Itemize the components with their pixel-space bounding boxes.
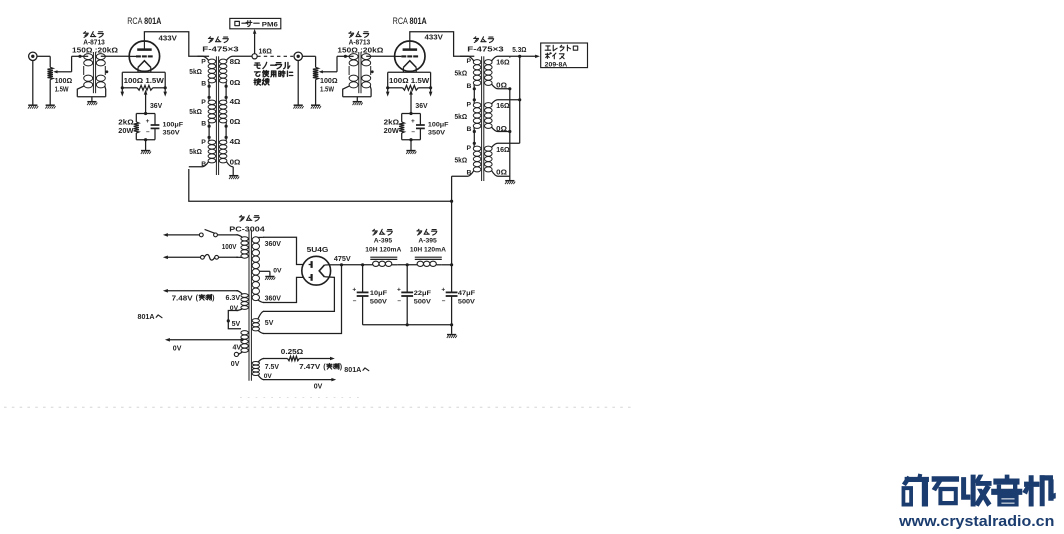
label 0Ω (T4 tap 2) bbox=[496, 83, 507, 90]
svg-text:209-8A: 209-8A bbox=[545, 61, 568, 68]
label 475V bbox=[334, 256, 351, 263]
svg-text:(: ( bbox=[323, 363, 326, 371]
svg-text:PM6: PM6 bbox=[262, 22, 278, 29]
svg-text:0V: 0V bbox=[264, 373, 273, 380]
svg-text:+: + bbox=[397, 286, 401, 293]
label で使用時に bbox=[255, 70, 293, 76]
wire V2 plate to right OPT P bbox=[410, 32, 475, 57]
label 100Ω 1.5W (V1 hum pot) bbox=[124, 76, 164, 85]
ground (VR1) bbox=[45, 105, 55, 108]
dashed mono link wire bbox=[257, 55, 293, 57]
label 0Ω (T2 tap 4) bbox=[230, 119, 241, 126]
svg-text:801A: 801A bbox=[138, 312, 155, 321]
svg-text:0V: 0V bbox=[231, 361, 240, 368]
label 0Ω (T4 tap 6) bbox=[496, 169, 507, 176]
output transformer T2 タムラ F-475×3 (left, series secondaries) bbox=[189, 56, 252, 175]
wire J1 to level pot bbox=[37, 56, 50, 67]
label 10H 120mA (L1) bbox=[365, 247, 401, 254]
svg-text:P: P bbox=[201, 99, 206, 106]
label 350V (C1) bbox=[163, 129, 181, 136]
svg-text:A-395: A-395 bbox=[374, 238, 393, 245]
svg-text:7.5V: 7.5V bbox=[265, 364, 280, 371]
label タムラ (L2) bbox=[417, 229, 437, 235]
label 350V (C2) bbox=[428, 129, 446, 136]
label 4Ω (T2 tap 3) bbox=[230, 99, 241, 106]
wire J1 ground drop bbox=[32, 61, 34, 105]
svg-text:500V: 500V bbox=[458, 298, 475, 305]
svg-text:): ) bbox=[340, 363, 343, 371]
label モノーラル bbox=[254, 62, 289, 68]
watermark url www.crystalradio.cn bbox=[898, 513, 1054, 530]
label 0Ω (T4 tap 4) bbox=[496, 126, 507, 133]
label 36V (V2) bbox=[415, 103, 428, 110]
label PC-3004 (T5) bbox=[229, 227, 265, 234]
label 0V (HV center tap) bbox=[273, 267, 282, 274]
svg-text:0Ω: 0Ω bbox=[496, 83, 507, 90]
label 100μF (C2) bbox=[428, 121, 449, 128]
label 10μF (C3) bbox=[370, 290, 387, 297]
T5 7.5V winding bbox=[252, 359, 264, 380]
label 1.5W (VR2) bbox=[320, 87, 334, 94]
svg-text:B: B bbox=[201, 161, 206, 168]
svg-text:www.crystalradio.cn: www.crystalradio.cn bbox=[898, 513, 1054, 530]
svg-text:0Ω: 0Ω bbox=[496, 126, 507, 133]
svg-text:433V: 433V bbox=[425, 34, 444, 41]
svg-text:20W: 20W bbox=[384, 128, 400, 135]
svg-text:433V: 433V bbox=[159, 36, 178, 43]
svg-text:): ) bbox=[212, 294, 215, 302]
svg-text:0V: 0V bbox=[314, 383, 323, 390]
label 2kΩ (R1) bbox=[118, 119, 134, 126]
svg-text:B: B bbox=[467, 83, 472, 90]
svg-text:22μF: 22μF bbox=[414, 290, 431, 297]
label 500V (C5) bbox=[458, 298, 475, 305]
wire T4 0Ω parallel bus bbox=[508, 87, 511, 180]
wire T4 16Ω parallel bus bbox=[510, 55, 522, 144]
svg-text:5kΩ: 5kΩ bbox=[189, 109, 202, 116]
svg-text:(: ( bbox=[196, 294, 199, 302]
wire 360V bottom to V3 anode 2 bbox=[263, 277, 303, 302]
label 16Ω (T4 tap 1) bbox=[496, 60, 510, 67]
svg-text:0Ω: 0Ω bbox=[230, 160, 241, 167]
svg-text:5kΩ: 5kΩ bbox=[189, 149, 202, 156]
svg-text:P: P bbox=[467, 58, 472, 65]
wire choke L2 to B+ node bbox=[442, 263, 453, 266]
label F-475×3 (T4) bbox=[467, 46, 504, 53]
label 10H 120mA (L2) bbox=[410, 247, 446, 254]
svg-text:–: – bbox=[397, 298, 401, 305]
svg-text:B: B bbox=[201, 80, 206, 87]
svg-text:16Ω: 16Ω bbox=[259, 48, 273, 55]
svg-text:0Ω: 0Ω bbox=[230, 119, 241, 126]
choke L1 タムラ A-395 10H bbox=[370, 257, 397, 266]
wire V1 plate to left OPT P bbox=[144, 32, 209, 57]
svg-text:0V: 0V bbox=[173, 346, 182, 353]
T5 4V winding bbox=[237, 331, 249, 355]
label 7.5V bbox=[265, 364, 280, 371]
T5 primary 100V winding bbox=[237, 235, 249, 258]
hum pot 100Ω 1.5W (V1 filament) bbox=[121, 72, 168, 96]
svg-text:36V: 36V bbox=[150, 103, 163, 110]
input transformer T3 primary winding bbox=[343, 54, 358, 97]
label 36V (V1) bbox=[150, 103, 163, 110]
label RCA 801A (V1) bbox=[127, 16, 161, 27]
label P (T2 s1) bbox=[201, 58, 206, 65]
wire J2 ground drop bbox=[297, 61, 299, 105]
terminal open circle 0V (4V winding) bbox=[234, 352, 238, 356]
input transformer T1 bottom rail bbox=[77, 97, 105, 101]
svg-text:B: B bbox=[467, 126, 472, 133]
node 16Ω output terminal bbox=[252, 54, 257, 59]
input jack J1 bbox=[29, 52, 37, 60]
svg-text:500V: 500V bbox=[370, 298, 387, 305]
label タムラ (T3) bbox=[349, 32, 369, 38]
label 5V (rectifier winding) bbox=[265, 320, 274, 327]
label 4Ω (T2 tap 5) bbox=[230, 139, 241, 146]
input transformer T1 secondary winding bbox=[96, 54, 129, 97]
capacitor C4 22μF 500V bbox=[397, 265, 413, 325]
svg-text:801A: 801A bbox=[344, 365, 361, 374]
label 150Ω :20kΩ (T3) bbox=[337, 48, 383, 55]
label F-475×3 (T2) bbox=[202, 46, 239, 53]
input transformer T1 primary winding bbox=[77, 54, 92, 97]
svg-text:F-475×3: F-475×3 bbox=[202, 46, 239, 53]
label P (T4 s3) bbox=[467, 145, 472, 152]
label 360V (HV bottom) bbox=[265, 295, 282, 302]
ground (filter rail) bbox=[447, 335, 457, 338]
label 100Ω 1.5W (V2 hum pot) bbox=[389, 76, 429, 85]
wire T4 output 5.3Ω to speaker bbox=[510, 55, 540, 59]
wire 6.3V to 801A filaments + arrow bbox=[163, 289, 238, 293]
power transformer T5 タムラ PC-3004 core bbox=[249, 230, 251, 381]
wire V3 filament to 5V winding bbox=[263, 277, 334, 312]
svg-text:+: + bbox=[441, 286, 445, 293]
svg-text:100μF: 100μF bbox=[163, 121, 184, 128]
wire filter ground rail bbox=[363, 323, 454, 334]
svg-text:7.48V: 7.48V bbox=[172, 295, 193, 302]
svg-text:1.5W: 1.5W bbox=[320, 87, 334, 94]
svg-text:6.3V: 6.3V bbox=[226, 295, 241, 302]
svg-text:PC-3004: PC-3004 bbox=[229, 227, 265, 234]
label A-395 (L1) bbox=[374, 238, 393, 245]
svg-text:10H 120mA: 10H 120mA bbox=[365, 247, 401, 254]
label 20W (R1) bbox=[118, 128, 134, 135]
potentiometer VR1 100Ω 1.5W bbox=[48, 67, 53, 79]
input transformer T3 secondary winding bbox=[362, 54, 395, 97]
T5 HV secondary 360-0-360 winding bbox=[252, 237, 270, 303]
label タムラ (T2) bbox=[208, 37, 228, 43]
label B (T4 s1) bbox=[467, 83, 472, 90]
choke L2 タムラ A-395 10H bbox=[415, 257, 442, 266]
input transformer T3 bottom rail bbox=[343, 97, 371, 101]
svg-text:B: B bbox=[467, 169, 472, 176]
node (input transformer primary top) bbox=[78, 55, 81, 58]
T5 5V rectifier winding bbox=[252, 311, 264, 333]
label タムラ (T5) bbox=[239, 215, 259, 221]
label タムラ (T1) bbox=[83, 32, 103, 38]
label 22μF (C4) bbox=[414, 290, 431, 297]
svg-text:1.5W: 1.5W bbox=[55, 87, 69, 94]
label 0V (7.5V winding) bbox=[264, 373, 273, 380]
svg-text:5kΩ: 5kΩ bbox=[455, 70, 468, 77]
label B (T2 s2) bbox=[201, 120, 206, 127]
bias resistor R3 2kΩ + cap C2 100μF (V2) bbox=[399, 90, 425, 150]
label タムラ (L1) bbox=[372, 229, 392, 235]
label 500V (C4) bbox=[414, 298, 431, 305]
svg-text:0Ω: 0Ω bbox=[496, 169, 507, 176]
wire mains neutral + arrow bbox=[163, 255, 201, 259]
svg-text:–: – bbox=[411, 129, 415, 136]
wire 7.5V return 0V + arrow bbox=[263, 378, 336, 382]
svg-text:5U4G: 5U4G bbox=[307, 245, 329, 254]
label RCA 801A (V2) bbox=[393, 16, 427, 27]
ground (HV center tap) bbox=[265, 277, 275, 280]
svg-text:4V: 4V bbox=[233, 345, 242, 352]
wire choke L1 to choke L2 bbox=[397, 263, 417, 266]
label A-395 (L2) bbox=[418, 238, 437, 245]
ground (J1) bbox=[28, 105, 38, 108]
label 0Ω (T2 tap 2) bbox=[230, 80, 241, 87]
label 500V (C3) bbox=[370, 298, 387, 305]
svg-text:0V: 0V bbox=[230, 305, 239, 312]
svg-text:360V: 360V bbox=[265, 295, 282, 302]
label 7.47V (実測) bbox=[299, 363, 343, 371]
svg-text:F-475×3: F-475×3 bbox=[467, 46, 504, 53]
label P (T2 s3) bbox=[201, 139, 206, 146]
mains switch S1 bbox=[199, 229, 238, 236]
speaker box エレクトロ ボイス 209-8A bbox=[541, 43, 588, 68]
label 0.25Ω bbox=[281, 349, 304, 356]
svg-text:7.47V: 7.47V bbox=[299, 364, 320, 371]
label 433V (V1 plate) bbox=[159, 36, 178, 43]
wire VR1 wiper to input transformer bbox=[53, 56, 80, 73]
label 7.48V (実測) bbox=[172, 294, 216, 303]
svg-text:350V: 350V bbox=[163, 129, 181, 136]
svg-text:5kΩ: 5kΩ bbox=[455, 114, 468, 121]
svg-text:100Ω 1.5W: 100Ω 1.5W bbox=[389, 76, 429, 85]
label 100Ω (VR1) bbox=[55, 78, 73, 85]
label 0V (return) bbox=[314, 383, 323, 390]
watermark logo 矿石收音机 bbox=[902, 474, 1055, 506]
ground (T2 secondary) bbox=[229, 176, 239, 179]
wire HV center tap to ground bbox=[269, 271, 271, 276]
svg-text:150Ω :20kΩ: 150Ω :20kΩ bbox=[72, 48, 118, 55]
label 16Ω bbox=[259, 48, 273, 55]
ground (T1) bbox=[87, 102, 97, 105]
speaker box ローサー PM6 bbox=[230, 18, 281, 28]
svg-text:P: P bbox=[467, 102, 472, 109]
svg-text:16Ω: 16Ω bbox=[496, 60, 510, 67]
wire 5V winding to 475V node bbox=[263, 265, 341, 334]
label P (T2 s2) bbox=[201, 99, 206, 106]
wire V3 cathode to 475V node bbox=[324, 264, 341, 266]
wire VR1 to ground bbox=[49, 80, 51, 105]
svg-text:A-395: A-395 bbox=[418, 238, 437, 245]
svg-text:5V: 5V bbox=[232, 321, 241, 328]
svg-text:475V: 475V bbox=[334, 256, 351, 263]
svg-text:350V: 350V bbox=[428, 129, 446, 136]
label 100Ω (VR2) bbox=[320, 78, 338, 85]
svg-text:–: – bbox=[353, 298, 357, 305]
svg-text:47μF: 47μF bbox=[458, 290, 475, 297]
ground (V1 bias) bbox=[141, 151, 151, 154]
input transformer T1 A-8713 core bbox=[93, 52, 95, 93]
label 47μF (C5) bbox=[458, 290, 475, 297]
label 0V (4V bottom) bbox=[231, 361, 240, 368]
svg-text:RCA 801A: RCA 801A bbox=[127, 16, 161, 27]
wire 4V tap 0V + arrow bbox=[165, 338, 244, 342]
svg-text:8Ω: 8Ω bbox=[230, 59, 241, 66]
svg-text:+: + bbox=[146, 118, 150, 125]
wire 16Ω node to speaker arrow bbox=[253, 29, 257, 54]
wire 6.3V 0V step link to 4V winding bbox=[227, 311, 241, 329]
output transformer T4 タムラ F-475×3 (right, parallel secondaries) bbox=[452, 56, 520, 181]
svg-text:360V: 360V bbox=[265, 241, 282, 248]
label 16Ω (T4 tap 3) bbox=[496, 103, 510, 110]
label 100V bbox=[222, 244, 237, 251]
wire VR2 to ground bbox=[315, 80, 317, 105]
label 433V (V2 plate) bbox=[425, 34, 444, 41]
label 5kΩ (T2 s2) bbox=[189, 109, 202, 116]
label 接続 bbox=[254, 79, 269, 86]
ground (VR2) bbox=[311, 105, 321, 108]
label 20W (R3) bbox=[384, 128, 400, 135]
svg-text:RCA 801A: RCA 801A bbox=[393, 16, 427, 27]
label 5U4G (V3) bbox=[307, 245, 329, 254]
wire T4 B to B+ bus bbox=[450, 176, 453, 265]
svg-text:–: – bbox=[146, 129, 150, 136]
label 0V (6.3V winding) bbox=[230, 305, 239, 312]
label 4V bbox=[233, 345, 242, 352]
label 6.3V bbox=[226, 295, 241, 302]
svg-text:4Ω: 4Ω bbox=[230, 139, 241, 146]
label 16Ω (T4 tap 5) bbox=[496, 147, 510, 154]
input transformer T3 A-8713 core bbox=[359, 52, 361, 93]
svg-text:5.3Ω: 5.3Ω bbox=[512, 47, 527, 54]
label 0V (4V tap) bbox=[173, 346, 182, 353]
svg-text:36V: 36V bbox=[415, 103, 428, 110]
label 8Ω (T2 tap 1) bbox=[230, 59, 241, 66]
svg-text:2kΩ: 2kΩ bbox=[384, 119, 400, 126]
capacitor C5 47μF 500V bbox=[441, 265, 457, 325]
ground (T4 secondary) bbox=[505, 181, 515, 184]
label 5.3Ω bbox=[512, 47, 527, 54]
svg-text:2kΩ: 2kΩ bbox=[118, 119, 134, 126]
triode V1 RCA 801A bbox=[129, 41, 159, 72]
ground (J2) bbox=[293, 105, 303, 108]
label 360V (HV top) bbox=[265, 241, 282, 248]
svg-text:10H 120mA: 10H 120mA bbox=[410, 247, 446, 254]
label P (T4 s2) bbox=[467, 102, 472, 109]
label 1.5W (VR1) bbox=[55, 87, 69, 94]
label 5kΩ (T4 s3) bbox=[455, 158, 468, 165]
svg-text:16Ω: 16Ω bbox=[496, 103, 510, 110]
wire T2 B to B+ bus bbox=[189, 169, 452, 201]
triode V2 RCA 801A bbox=[395, 41, 425, 72]
node 475V bbox=[340, 263, 343, 266]
resistor 0.25Ω (filament dropper) bbox=[263, 356, 335, 360]
label 801Aへ (psu) bbox=[344, 365, 369, 374]
wire mains line + arrow bbox=[163, 233, 200, 237]
svg-text:4Ω: 4Ω bbox=[230, 99, 241, 106]
label 5kΩ (T4 s2) bbox=[455, 114, 468, 121]
svg-text:100V: 100V bbox=[222, 244, 237, 251]
svg-text:P: P bbox=[201, 58, 206, 65]
label 2kΩ (R3) bbox=[384, 119, 400, 126]
label タムラ (T4) bbox=[474, 37, 494, 43]
label 150Ω :20kΩ (T1) bbox=[72, 48, 118, 55]
svg-text:–: – bbox=[442, 298, 446, 305]
label B (T4 s3) bbox=[467, 169, 472, 176]
svg-text:10μF: 10μF bbox=[370, 290, 387, 297]
T5 6.3V winding bbox=[237, 291, 249, 311]
label 5kΩ (T2 s1) bbox=[189, 69, 202, 76]
label B (T4 s2) bbox=[467, 126, 472, 133]
svg-text:20W: 20W bbox=[118, 128, 134, 135]
hum pot 100Ω 1.5W (V2 filament) bbox=[386, 72, 433, 96]
svg-text:100Ω: 100Ω bbox=[320, 78, 338, 85]
ground (T3) bbox=[353, 102, 363, 105]
svg-text:P: P bbox=[467, 145, 472, 152]
wire 360V top to V3 anode 1 bbox=[263, 237, 303, 264]
svg-text:100Ω 1.5W: 100Ω 1.5W bbox=[124, 76, 164, 85]
svg-text:P: P bbox=[201, 139, 206, 146]
svg-text:16Ω: 16Ω bbox=[496, 147, 510, 154]
potentiometer VR2 100Ω 1.5W bbox=[313, 67, 318, 79]
wire T2 secondary series links bbox=[225, 85, 228, 139]
wire VR2 wiper to input transformer bbox=[319, 56, 346, 73]
label B (T2 s1) bbox=[201, 80, 206, 87]
label 5kΩ (T4 s1) bbox=[455, 70, 468, 77]
svg-text:0.25Ω: 0.25Ω bbox=[281, 349, 304, 356]
wire J2 to level pot bbox=[302, 56, 315, 67]
svg-text:B: B bbox=[201, 120, 206, 127]
input jack J2 bbox=[294, 52, 302, 60]
label A-8713 (T3) bbox=[349, 40, 371, 47]
svg-text:+: + bbox=[411, 118, 415, 125]
label P (T4 s1) bbox=[467, 58, 472, 65]
svg-text:5V: 5V bbox=[265, 320, 274, 327]
capacitor C3 10μF 500V bbox=[352, 265, 368, 325]
svg-text:100Ω: 100Ω bbox=[55, 78, 73, 85]
bias resistor R1 2kΩ + cap C1 100μF (V1) bbox=[134, 90, 160, 150]
label 0Ω (T2 tap 6) bbox=[230, 160, 241, 167]
svg-text:100μF: 100μF bbox=[428, 121, 449, 128]
svg-text:A-8713: A-8713 bbox=[349, 40, 371, 47]
svg-text:+: + bbox=[352, 286, 356, 293]
svg-text:5kΩ: 5kΩ bbox=[189, 69, 202, 76]
svg-text:A-8713: A-8713 bbox=[83, 40, 105, 47]
wire T2 0Ω to ground bbox=[232, 167, 234, 175]
scan artifact dotted line bbox=[4, 397, 632, 407]
label B (T2 s3) bbox=[201, 161, 206, 168]
svg-text:150Ω :20kΩ: 150Ω :20kΩ bbox=[337, 48, 383, 55]
label 100μF (C1) bbox=[163, 121, 184, 128]
fuse F1 bbox=[201, 255, 239, 261]
label 801Aへ (left) bbox=[138, 312, 163, 321]
svg-text:5kΩ: 5kΩ bbox=[455, 158, 468, 165]
ground (V2 bias) bbox=[406, 151, 416, 154]
node (input transformer primary top) bbox=[344, 55, 347, 58]
label 5V (heater tap) bbox=[232, 321, 241, 328]
svg-text:0V: 0V bbox=[273, 267, 282, 274]
rectifier V3 5U4G bbox=[302, 256, 331, 285]
wire 475V to choke L1 bbox=[342, 263, 373, 266]
label 5kΩ (T2 s3) bbox=[189, 149, 202, 156]
label A-8713 (T1) bbox=[83, 40, 105, 47]
svg-text:500V: 500V bbox=[414, 298, 431, 305]
svg-text:0Ω: 0Ω bbox=[230, 80, 241, 87]
